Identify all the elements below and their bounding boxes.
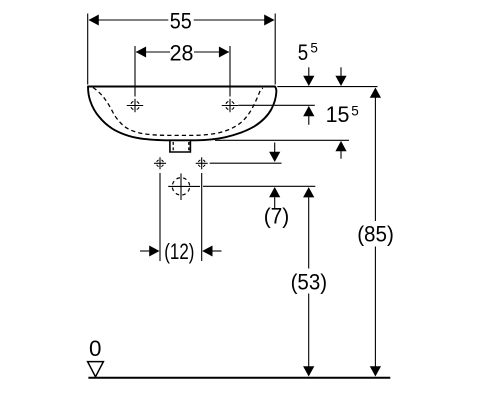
svg-text:15: 15 <box>326 102 350 127</box>
dim 28: left arrow <box>136 47 146 58</box>
fixing hole right symbol <box>196 157 208 169</box>
floor line <box>88 377 390 379</box>
dim 55: dimension line <box>89 19 168 21</box>
tap hole right symbol <box>222 99 238 112</box>
basin inner bowl (dashed) <box>93 88 263 136</box>
dim 55: right arrow <box>264 15 274 26</box>
dim 28: right arrow <box>219 47 229 58</box>
reference line: drain level <box>203 185 315 187</box>
dim 55: extension line left <box>87 14 89 85</box>
svg-text:(85): (85) <box>357 221 394 246</box>
dim (12): extension line left <box>159 173 161 261</box>
tap hole left symbol <box>127 99 143 112</box>
dim (12): right outside arrow <box>202 246 212 257</box>
floor datum triangle <box>88 362 104 377</box>
svg-text:5: 5 <box>298 40 308 65</box>
trap hidden lines (dashed) <box>172 142 174 151</box>
fixing hole left symbol <box>154 157 166 169</box>
svg-text:(53): (53) <box>291 270 328 295</box>
dim (7): upper down-arrow <box>274 143 276 153</box>
drain trap rectangle <box>170 141 191 152</box>
dim 55: extension line right <box>274 14 276 85</box>
dim (12): extension line right <box>201 173 203 261</box>
drain hole symbol (dashed circle + crosshair) <box>168 173 200 200</box>
dim 28: extension line left <box>134 46 136 97</box>
dim 15-5: upper down-arrow <box>340 67 342 77</box>
dim 28: dimension line <box>136 51 170 53</box>
reference line: tap hole level <box>238 104 315 106</box>
dim 55: left arrow <box>89 15 99 26</box>
dim (7): lower up-arrow <box>269 187 280 197</box>
svg-text:55: 55 <box>170 9 192 34</box>
svg-text:0: 0 <box>89 336 101 361</box>
reference line: rim level <box>277 86 377 88</box>
svg-text:5: 5 <box>310 41 318 56</box>
dim (85): vertical line with arrows <box>370 88 381 98</box>
svg-text:28: 28 <box>170 41 194 66</box>
svg-text:(7): (7) <box>264 203 290 228</box>
dim 5-5: upper down-arrow <box>308 67 310 77</box>
dim 15-5: lower up-arrow <box>335 141 346 151</box>
dim 5-5: lower up-arrow <box>303 106 314 116</box>
dim 28: extension line right <box>229 46 231 97</box>
reference line: basin bottom level <box>215 139 349 141</box>
basin outer outline <box>88 87 276 141</box>
svg-text:(12): (12) <box>164 239 194 264</box>
reference line: fixing hole level <box>210 162 282 164</box>
dim (12): left outside arrow <box>140 250 151 252</box>
svg-text:5: 5 <box>351 103 359 118</box>
dim (53): vertical line with arrows <box>303 187 314 197</box>
